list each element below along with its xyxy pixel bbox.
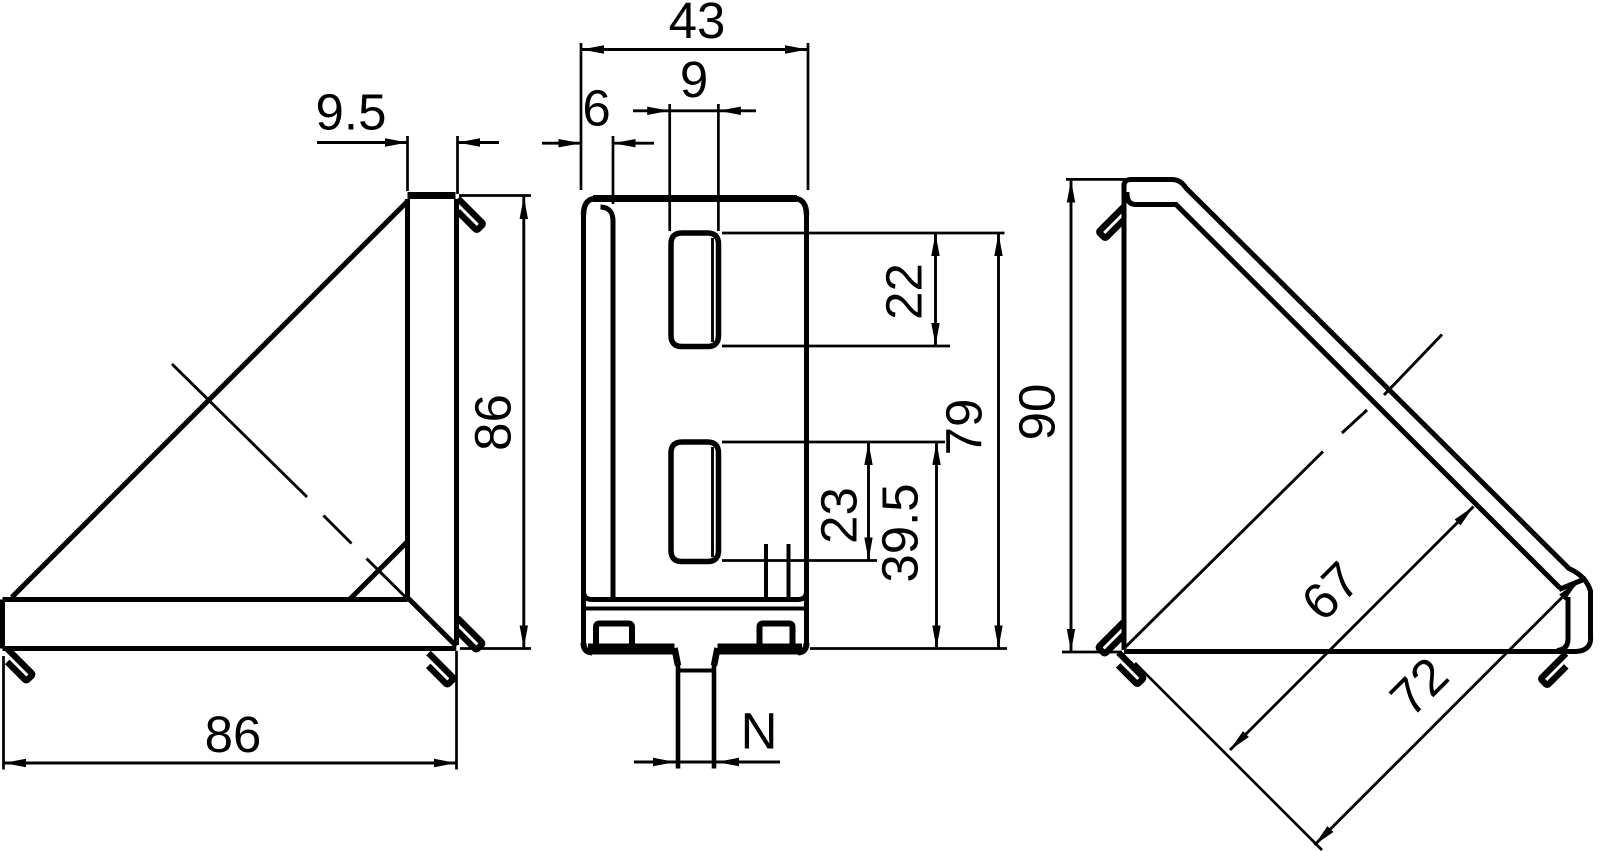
left edge	[1122, 183, 1127, 650]
svg-text:39.5: 39.5	[872, 483, 929, 582]
nose inner line	[678, 669, 714, 673]
slot 1 inner line	[711, 238, 714, 342]
dimension 90 line	[1070, 179, 1073, 652]
dimension 86 horizontal line	[4, 762, 457, 765]
bottom edge	[1124, 649, 1561, 654]
svg-text:N: N	[741, 703, 778, 760]
dimension 23 arrows	[864, 443, 872, 466]
dimension 39.5 line	[935, 442, 938, 649]
svg-text:6: 6	[582, 80, 610, 137]
inner left wall	[601, 207, 614, 599]
extension line foot bottom	[810, 647, 1007, 650]
corner chamfer rib	[350, 542, 408, 600]
thin cross line dash	[324, 516, 352, 544]
dimension 86 horizontal arrows	[4, 759, 27, 767]
svg-text:86: 86	[465, 394, 522, 451]
slot 1 outline	[671, 233, 719, 347]
vertical leg left edge	[405, 199, 410, 598]
dimension 86 vertical arrows	[520, 197, 528, 220]
body bottom-right corner	[798, 643, 807, 653]
tongue cap	[1559, 579, 1586, 590]
slot 2 outline	[671, 442, 719, 562]
hook tab bottom-left upper	[1099, 622, 1124, 653]
extension line slot2 bottom	[722, 559, 877, 562]
tongue left edge	[1557, 597, 1568, 651]
svg-text:90: 90	[1009, 384, 1066, 441]
dimension 6 extension line	[612, 136, 615, 204]
hook tab bottom-right	[1541, 654, 1566, 685]
dimension 67 arrows	[1455, 504, 1477, 526]
dimension 79 line	[997, 233, 1000, 649]
dimension 9 extension lines	[670, 104, 719, 231]
plate bottom line	[584, 607, 807, 611]
svg-text:43: 43	[669, 0, 726, 49]
dimension 6 line	[542, 142, 654, 145]
inner bottom edge	[584, 591, 807, 600]
svg-text:9.5: 9.5	[316, 84, 387, 141]
hook tab bottom-left lower	[1118, 653, 1143, 684]
bottom leg bottom edge	[3, 646, 457, 651]
thin cross line solid upper	[172, 364, 307, 497]
dimension 43 line	[581, 48, 808, 51]
vertical leg right edge	[454, 199, 459, 645]
hook tab bottom edge left	[7, 649, 32, 680]
corner extension line diagonal	[1135, 663, 1322, 850]
foot tab box right	[760, 624, 793, 646]
dimension 86 vertical line	[522, 197, 525, 649]
dimension 72 arrows	[1559, 579, 1581, 601]
corner fold diagonal	[408, 598, 457, 647]
inner top edge and inner hypotenuse	[1127, 192, 1560, 588]
dimension 22 arrows	[931, 234, 939, 257]
foot bottom edge left part	[588, 644, 675, 655]
dimension N line	[634, 761, 780, 764]
dimension 90 arrows	[1067, 180, 1075, 203]
thin cross line solid lower	[1126, 452, 1324, 648]
dimension 86 vertical extension lines	[459, 196, 531, 649]
dimension 9.5 lines	[317, 141, 499, 144]
foot bottom edge right part	[718, 644, 803, 655]
body left edge	[581, 213, 586, 647]
body bottom-left corner	[584, 643, 593, 653]
thin cross line solid upper	[1384, 335, 1442, 396]
body right edge	[804, 213, 809, 647]
hook tab bottom edge right	[428, 653, 453, 684]
extension line slot1 bottom	[722, 345, 950, 348]
dimension 90 extension lines	[1062, 179, 1129, 652]
foot tab box left	[596, 624, 632, 646]
bottom leg top edge	[3, 597, 408, 602]
body top edge	[593, 195, 797, 202]
svg-text:86: 86	[205, 706, 262, 763]
nose right wall	[714, 648, 718, 666]
apex top edge	[408, 192, 456, 199]
dimension 79 arrows	[994, 234, 1002, 257]
hook tab top-left	[1099, 207, 1124, 238]
svg-text:23: 23	[811, 487, 868, 544]
dimension 9 line	[633, 109, 756, 112]
dimension 67 line	[1230, 507, 1474, 751]
extension line slot2 top	[722, 441, 945, 444]
pin line left	[764, 544, 768, 598]
svg-text:72: 72	[1379, 646, 1459, 726]
gusset diagonal edge	[12, 202, 408, 598]
svg-text:22: 22	[876, 263, 933, 320]
dimension 86 horizontal extension lines	[4, 651, 457, 770]
hook tab top-right	[458, 199, 483, 230]
thin cross line dash	[1342, 410, 1367, 433]
slot 2 inner line	[711, 447, 714, 557]
nose left wall	[675, 648, 679, 666]
dimension 6 arrows	[559, 139, 582, 147]
dimension 22 line	[934, 233, 937, 346]
body top-left corner	[584, 199, 597, 216]
extension line slot1 top	[722, 232, 1005, 235]
top tab and outer hypotenuse and tongue	[1124, 180, 1591, 652]
dimension 72 line	[1315, 582, 1579, 846]
svg-text:79: 79	[936, 399, 993, 456]
dimension 9.5 extension lines	[408, 136, 458, 194]
dimension N arrows	[653, 758, 676, 766]
dimension 9 arrows	[647, 107, 670, 115]
thin cross line solid lower	[367, 559, 408, 599]
dimension 43 arrows	[582, 45, 605, 53]
pin line right	[787, 544, 791, 598]
body top-right corner	[794, 199, 807, 216]
dimension 23 line	[867, 442, 870, 561]
dimension 43 extension lines	[581, 43, 808, 190]
hook tab right edge bottom	[457, 618, 482, 649]
dimension 39.5 arrows	[932, 443, 940, 466]
bottom leg left end cap	[0, 600, 5, 649]
svg-text:9: 9	[680, 51, 708, 108]
dimension 9.5 arrows	[385, 138, 408, 146]
